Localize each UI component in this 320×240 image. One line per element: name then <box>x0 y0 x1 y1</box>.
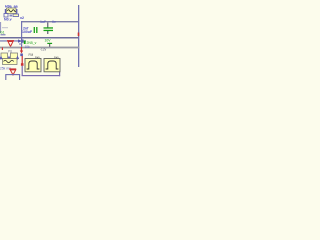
probe arrow P2 red <box>20 47 23 54</box>
junction red right <box>78 33 80 37</box>
node dot blue <box>20 54 23 57</box>
label C1 value 2nF <box>22 26 33 34</box>
probe arrow P3 <box>9 68 16 75</box>
wire green vertical <box>47 43 52 47</box>
wire stub out of V1 right <box>16 9 17 14</box>
resistor R1 <box>4 14 19 18</box>
wire main bus gray <box>0 47 79 49</box>
capacitor C2 <box>44 23 54 35</box>
pulse source X1 <box>25 59 41 72</box>
wire horizontal at diode level <box>0 40 26 41</box>
wire left edge vertical <box>0 22 1 33</box>
label V1 value text <box>5 5 19 9</box>
transformer T1 <box>3 59 18 65</box>
junction red dot <box>21 63 24 66</box>
diode D1 <box>18 39 24 44</box>
wire stub into V1 left <box>5 9 6 14</box>
svg-text:FM: FM <box>29 53 34 57</box>
label left small <box>1 34 6 35</box>
wire purple horizontal <box>22 75 61 76</box>
label R1 text <box>4 16 24 22</box>
svg-text:0v: 0v <box>52 20 56 24</box>
component box outline bottom-left <box>6 75 20 81</box>
FM source V1 <box>7 8 17 14</box>
wire purple right vertical <box>59 72 60 76</box>
wire stub vertical mid <box>21 37 22 47</box>
resistor R3 body <box>1 53 8 59</box>
svg-text:-12v: -12v <box>40 48 47 52</box>
svg-text:N0.v: N0.v <box>4 17 12 21</box>
wire top horizontal <box>21 21 79 22</box>
wire left vertical <box>21 21 22 37</box>
capacitor C1 <box>34 27 37 33</box>
svg-text:10k: 10k <box>25 45 31 49</box>
green mark Q1 <box>24 41 26 44</box>
svg-text:x2: x2 <box>20 16 24 20</box>
svg-text:10V: 10V <box>45 39 52 43</box>
svg-text:1uF: 1uF <box>40 20 47 24</box>
label 25k <box>0 66 11 70</box>
label C2 value 1uF <box>40 20 56 24</box>
pulse source X2 <box>44 59 60 72</box>
svg-text:G1: G1 <box>0 31 5 35</box>
junction tick left <box>2 47 3 50</box>
probe arrow P1 <box>7 40 14 46</box>
svg-text:100uF: 100uF <box>22 30 33 34</box>
wire purple vertical <box>22 66 23 76</box>
wire red vertical <box>22 56 23 65</box>
wire stubs blue with arrowheads <box>0 56 19 60</box>
resistor R4 body <box>11 53 18 59</box>
label faint left <box>2 27 8 28</box>
wire bus mid horizontal <box>0 37 79 39</box>
wire right vertical <box>78 5 79 67</box>
